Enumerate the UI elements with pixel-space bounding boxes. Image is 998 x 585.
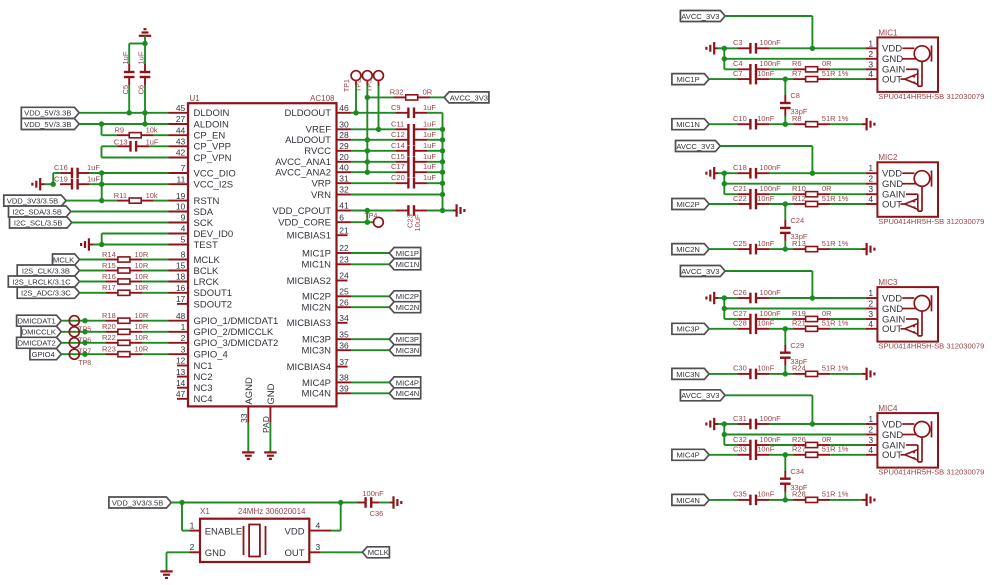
wire VDD_CORE to TP4 [351, 211, 374, 225]
svg-text:1: 1 [190, 520, 195, 530]
svg-text:34: 34 [339, 313, 349, 323]
svg-text:LRCK: LRCK [194, 277, 220, 288]
net flag MIC1N [672, 119, 709, 130]
capacitor C13 1uF [114, 137, 159, 151]
net flag MIC1N [389, 259, 420, 270]
svg-text:SPU0414HR5H-SB 312030079: SPU0414HR5H-SB 312030079 [878, 92, 984, 101]
svg-text:4: 4 [868, 319, 873, 329]
test point TP5 [69, 316, 91, 334]
svg-text:2: 2 [868, 299, 873, 309]
wire R9 to ALDOIN rail [102, 124, 117, 135]
net flag MIC2P [672, 199, 709, 210]
wire C32 to R26 [769, 444, 793, 446]
capacitor C17 1uF [391, 162, 436, 177]
resistor R22 10R [102, 333, 149, 345]
svg-text:R15: R15 [102, 261, 116, 270]
svg-text:OUT: OUT [285, 548, 305, 559]
capacitor C19 1uF [54, 174, 100, 189]
capacitor C5 1uF [121, 51, 135, 94]
svg-text:9: 9 [181, 213, 186, 223]
svg-text:44: 44 [176, 125, 186, 135]
svg-text:MICBIAS2: MICBIAS2 [287, 276, 331, 287]
net flag AVCC_3V3 (MIC1) [680, 11, 725, 22]
wire MIC2N [351, 306, 389, 308]
net flag MIC3P [389, 334, 420, 345]
svg-text:MIC4P: MIC4P [676, 451, 699, 460]
svg-text:10nF: 10nF [757, 69, 775, 78]
svg-text:MIC4P: MIC4P [302, 378, 331, 389]
svg-text:I2S_CLK/3.3B: I2S_CLK/3.3B [22, 266, 70, 275]
svg-text:R12: R12 [792, 194, 806, 203]
svg-text:30: 30 [339, 120, 349, 130]
ground (C23) [453, 204, 464, 216]
svg-text:C21: C21 [733, 184, 747, 193]
wire VCC bus down to VDD_3V3 rail [99, 173, 104, 203]
capacitor C32 100nF [733, 435, 781, 451]
wire GND row (MIC4) [724, 434, 865, 436]
capacitor C36 100nF [358, 489, 384, 518]
wire DMICCLK to R20 [61, 329, 105, 334]
svg-text:1uF: 1uF [423, 162, 436, 171]
wire TP1 to DLDOOUT [353, 86, 358, 116]
svg-text:100nF: 100nF [760, 163, 782, 172]
svg-text:AVCC_3V3: AVCC_3V3 [450, 93, 488, 102]
svg-text:DMICDAT1: DMICDAT1 [17, 317, 55, 326]
svg-text:1: 1 [868, 288, 873, 298]
wire C20 to GND bus [427, 181, 445, 186]
capacitor C31 100nF [733, 414, 781, 430]
net flag VDD_3V3/3.5B (X1) [109, 497, 171, 508]
svg-text:10R: 10R [135, 261, 149, 270]
svg-text:51R 1%: 51R 1% [822, 364, 849, 373]
svg-text:1uF: 1uF [87, 163, 100, 172]
net flag MIC1P [672, 74, 709, 85]
svg-text:36: 36 [339, 340, 349, 350]
svg-text:1uF: 1uF [423, 173, 436, 182]
svg-text:MCLK: MCLK [368, 548, 389, 557]
wire C9 row [351, 112, 395, 114]
svg-text:100nF: 100nF [362, 489, 384, 498]
svg-text:C35: C35 [733, 490, 747, 499]
svg-text:AVCC_ANA2: AVCC_ANA2 [275, 168, 331, 179]
microphone MIC4 SPU0414HR5H-SB [866, 404, 985, 477]
svg-text:C27: C27 [733, 309, 747, 318]
svg-text:3: 3 [868, 435, 873, 445]
wire MIC3N to C30 [709, 373, 737, 375]
ground (C26) [706, 292, 718, 304]
svg-text:VRP: VRP [311, 179, 331, 190]
svg-text:13: 13 [176, 367, 186, 377]
resistor R7 51R 1% [792, 69, 849, 82]
svg-text:43: 43 [176, 137, 186, 147]
svg-text:10k: 10k [146, 191, 158, 200]
capacitor C12 1uF [391, 130, 436, 145]
svg-text:22: 22 [339, 243, 349, 253]
wire TEST node to DEV_ID0 [102, 234, 169, 245]
svg-text:R14: R14 [102, 250, 116, 259]
wire C33 to R27 [769, 452, 793, 457]
wire I2S_LRCLK/3.1C to R16 [80, 281, 106, 283]
svg-text:GND: GND [205, 548, 226, 559]
test point TP1 [344, 71, 361, 92]
svg-text:R6: R6 [792, 59, 802, 68]
wire C8 bottom [783, 116, 788, 127]
wire R17 to IC [142, 292, 168, 294]
wire R8 to ground [830, 123, 862, 125]
svg-text:DMICDAT2: DMICDAT2 [17, 339, 55, 348]
ground (X1) [160, 571, 172, 578]
svg-text:NC4: NC4 [194, 394, 213, 405]
ground (MIC4 return) [862, 494, 874, 506]
capacitor C15 1uF [391, 152, 436, 167]
capacitor C21 100nF [733, 184, 781, 200]
svg-text:MIC1P: MIC1P [302, 248, 331, 259]
capacitor C10 10nF [733, 114, 775, 130]
svg-text:SDOUT1: SDOUT1 [194, 288, 233, 299]
wire C36 to ground [379, 502, 390, 504]
svg-text:GPIO4: GPIO4 [32, 350, 55, 359]
resistor R9 10k [115, 126, 158, 138]
ground (top, above C5/C6) [139, 29, 151, 43]
wire C25 to R13 [769, 248, 793, 250]
wire GND bus vertical [442, 113, 444, 211]
wire R19 to GAIN [830, 318, 866, 320]
svg-text:1uF: 1uF [87, 174, 100, 183]
wire R27 to OUT [830, 454, 866, 456]
svg-text:I2C_SDA/3.5B: I2C_SDA/3.5B [13, 207, 62, 216]
svg-text:VDD_3V3/3.5B: VDD_3V3/3.5B [7, 197, 59, 206]
wire MIC4N to C35 [709, 499, 737, 501]
svg-text:23: 23 [339, 255, 349, 265]
svg-text:10R: 10R [135, 283, 149, 292]
svg-text:GND: GND [882, 54, 903, 65]
wire C3 left [724, 47, 737, 49]
wire C11 to GND bus [427, 127, 445, 132]
svg-text:VDD: VDD [882, 169, 902, 180]
svg-text:R18: R18 [102, 311, 116, 320]
wire C17 row [351, 171, 395, 173]
wire VDD_5V to ALDOIN [79, 121, 168, 126]
svg-text:1uF: 1uF [423, 119, 436, 128]
wire ground to C18 [718, 171, 727, 176]
svg-text:3: 3 [316, 542, 321, 552]
wire C3 to VDD pin [769, 47, 866, 49]
svg-text:10R: 10R [135, 311, 149, 320]
wire VDD_3V3 rail (X1) [171, 500, 343, 505]
svg-text:TP1: TP1 [344, 79, 351, 92]
wire C20 row [351, 182, 395, 184]
svg-text:1: 1 [181, 322, 186, 332]
capacitor C3 100nF [733, 38, 781, 54]
wire OUT to MCLK flag [320, 551, 362, 553]
microphone MIC1 SPU0414HR5H-SB [866, 28, 985, 101]
svg-text:R11: R11 [114, 191, 127, 200]
capacitor C22 10nF [733, 194, 775, 210]
svg-text:0R: 0R [822, 59, 832, 68]
svg-text:39: 39 [339, 384, 349, 394]
wire GPIO4 to R23 [61, 352, 105, 357]
svg-text:GND: GND [266, 383, 277, 404]
svg-text:MIC4P: MIC4P [396, 378, 419, 387]
wire ground to C16/C19 node [45, 173, 56, 187]
svg-text:8: 8 [181, 250, 186, 260]
svg-text:C12: C12 [391, 130, 405, 139]
wire R23 to IC [142, 353, 168, 355]
net flag MCLK (X1 out) [362, 547, 389, 558]
net flag DMICDAT2 [17, 337, 62, 348]
svg-text:MICBIAS4: MICBIAS4 [287, 362, 331, 373]
svg-text:C29: C29 [790, 341, 804, 350]
svg-text:SDOUT2: SDOUT2 [194, 299, 233, 310]
svg-text:10nF: 10nF [757, 445, 775, 454]
svg-text:C4: C4 [733, 59, 743, 68]
svg-text:46: 46 [339, 103, 349, 113]
svg-text:17: 17 [176, 294, 186, 304]
svg-text:U1: U1 [190, 94, 201, 103]
IC U1 AC108 audio codec [169, 94, 352, 433]
svg-text:VCC_I2S: VCC_I2S [194, 180, 234, 191]
wire C7 to R7 [769, 76, 793, 81]
net flag AVCC_3V3 (MIC4) [680, 390, 725, 401]
capacitor C26 100nF [733, 288, 781, 304]
wire SCK [72, 222, 169, 224]
svg-text:10nF: 10nF [757, 319, 775, 328]
svg-text:RSTN: RSTN [194, 196, 220, 207]
svg-text:MIC2N: MIC2N [301, 303, 331, 314]
svg-text:I2C_SCL/3.5B: I2C_SCL/3.5B [14, 218, 63, 227]
svg-text:10nF: 10nF [757, 364, 775, 373]
svg-text:4: 4 [181, 224, 186, 234]
svg-text:C18: C18 [733, 163, 747, 172]
svg-text:C19: C19 [54, 174, 68, 183]
svg-text:10nF: 10nF [757, 239, 775, 248]
svg-text:VDD_5V/3.3B: VDD_5V/3.3B [24, 120, 71, 129]
svg-text:MIC1P: MIC1P [676, 75, 699, 84]
net flag I2S_ADC/3.3C [17, 287, 79, 298]
svg-text:R21: R21 [792, 319, 806, 328]
svg-text:MICBIAS3: MICBIAS3 [287, 318, 331, 329]
capacitor C6 1uF [137, 51, 151, 94]
ground (C18) [706, 167, 718, 179]
resistor R18 10R [102, 311, 149, 323]
svg-text:45: 45 [176, 103, 186, 113]
ground (MIC2 return) [862, 243, 874, 255]
wire R28 to ground [830, 499, 862, 501]
wire GND row (MIC3) [724, 308, 865, 310]
wire MIC3P [351, 338, 389, 340]
svg-text:C28: C28 [733, 319, 747, 328]
wire AGND pin 33 to ground [247, 423, 249, 452]
svg-text:MIC1: MIC1 [878, 28, 898, 37]
svg-text:C32: C32 [733, 435, 747, 444]
wire MIC2P [351, 295, 389, 297]
resistor R28 51R 1% [792, 490, 849, 503]
wire MIC1N to C10 [709, 123, 737, 125]
resistor R13 51R 1% [792, 239, 849, 252]
svg-text:C36: C36 [370, 509, 384, 518]
svg-text:1: 1 [868, 163, 873, 173]
svg-text:100nF: 100nF [760, 435, 782, 444]
capacitor C7 10nF [733, 69, 775, 85]
wire ground to C26 [718, 295, 727, 300]
svg-text:NC2: NC2 [194, 372, 213, 383]
svg-text:1uF: 1uF [423, 130, 436, 139]
wire GND bus corner to C32 [724, 444, 737, 446]
wire R6 to GAIN [830, 68, 866, 70]
svg-text:MCLK: MCLK [53, 255, 74, 264]
wire R14 to IC [142, 259, 168, 261]
wire MIC1N [351, 263, 389, 265]
svg-text:BCLK: BCLK [194, 266, 219, 277]
net flag MIC4P [672, 449, 709, 460]
svg-text:2: 2 [868, 49, 873, 59]
net flag MCLK [53, 254, 80, 265]
wire R12 to OUT [830, 203, 866, 205]
capacitor C27 100nF [733, 309, 781, 325]
svg-text:AC108: AC108 [310, 94, 335, 103]
wire VDD_3V3 to R11 [66, 200, 117, 202]
test point TP7 [69, 338, 91, 356]
svg-text:R17: R17 [102, 283, 116, 292]
resistor R16 10R [102, 272, 149, 284]
wire C29 bottom [783, 366, 788, 377]
svg-text:ALDOIN: ALDOIN [194, 119, 230, 130]
svg-text:VDD: VDD [285, 526, 305, 537]
svg-text:C25: C25 [733, 239, 747, 248]
svg-text:MIC4N: MIC4N [676, 496, 700, 505]
resistor R26 0R [792, 435, 832, 448]
svg-text:AGND: AGND [244, 377, 255, 405]
svg-text:MIC3N: MIC3N [301, 346, 331, 357]
net flag MIC4P [389, 377, 420, 388]
wire C34 bottom [783, 492, 788, 503]
svg-text:CP_VPP: CP_VPP [194, 142, 232, 153]
svg-text:0R: 0R [822, 435, 832, 444]
svg-text:I2S_LRCLK/3.1C: I2S_LRCLK/3.1C [12, 277, 71, 286]
net flag AVCC_3V3 (MIC3) [680, 266, 725, 277]
capacitor C28 10nF [733, 319, 775, 335]
svg-text:10nF: 10nF [757, 194, 775, 203]
resistor R24 51R 1% [792, 364, 849, 377]
wire C27 to R19 [769, 318, 793, 320]
svg-text:10k: 10k [146, 126, 158, 135]
svg-text:MIC3: MIC3 [878, 278, 898, 287]
svg-text:MIC2N: MIC2N [396, 303, 420, 312]
wire R9 to CP_EN [154, 134, 169, 136]
svg-text:1uF: 1uF [423, 103, 436, 112]
wire C16 left [53, 172, 60, 174]
svg-text:47: 47 [176, 389, 186, 399]
microphone MIC3 SPU0414HR5H-SB [866, 278, 985, 351]
svg-text:OUT: OUT [882, 75, 902, 86]
wire MIC4N [351, 392, 389, 394]
svg-text:SCK: SCK [194, 218, 214, 229]
net flag MIC2N [672, 244, 709, 255]
svg-text:1: 1 [868, 38, 873, 48]
svg-text:0R: 0R [822, 184, 832, 193]
svg-text:GPIO_2/DMICCLK: GPIO_2/DMICCLK [194, 327, 274, 338]
wire SDA [71, 211, 169, 213]
wire GND bus (MIC2) [722, 173, 727, 194]
net flag VDD_5V/3.3B (pin 45) [21, 107, 79, 118]
svg-text:MIC4N: MIC4N [301, 389, 331, 400]
svg-text:11: 11 [176, 174, 185, 184]
ground (C31) [706, 418, 718, 430]
svg-text:VDD: VDD [882, 419, 902, 430]
svg-text:20: 20 [339, 152, 349, 162]
microphone MIC2 SPU0414HR5H-SB [866, 153, 985, 226]
svg-text:VRN: VRN [311, 190, 331, 201]
wire MIC1P [351, 252, 389, 254]
wire AVCC_3V3 to VDD (MIC4) [725, 395, 815, 426]
svg-text:2: 2 [868, 174, 873, 184]
wire C11 row [351, 128, 395, 130]
wire I2S_ADC/3.3C to R17 [80, 292, 106, 294]
svg-text:MIC1N: MIC1N [301, 260, 331, 271]
svg-text:10R: 10R [135, 333, 149, 342]
svg-text:24MHz 306020014: 24MHz 306020014 [238, 507, 306, 516]
svg-text:100nF: 100nF [760, 184, 782, 193]
svg-text:3: 3 [181, 344, 186, 354]
svg-text:R10: R10 [792, 184, 806, 193]
wire C31 left [724, 423, 737, 425]
svg-text:C16: C16 [54, 163, 68, 172]
svg-text:10R: 10R [135, 272, 149, 281]
wire C18 left [724, 172, 737, 174]
net flag AVCC_3V3 (R32) [444, 92, 489, 103]
ground (AGND) [242, 452, 254, 459]
wire R11 to RSTN [154, 200, 169, 202]
wire GND pin of X1 to ground [167, 552, 190, 570]
wire R22 to IC [142, 342, 168, 344]
net flag MIC3N [672, 368, 709, 379]
svg-text:1: 1 [868, 414, 873, 424]
wire VDD_3V3 down to ENABLE [182, 503, 189, 531]
wire C13 right to CP_VPP [149, 145, 168, 147]
test point TP2 [355, 71, 372, 92]
wire MIC1P to C7 [709, 78, 737, 80]
wire GND row (MIC2) [724, 183, 865, 185]
wire C10 to R8 [769, 123, 793, 125]
wire VRN to GND bus [351, 192, 445, 197]
wire GND bus (MIC1) [722, 48, 727, 69]
svg-text:51R 1%: 51R 1% [822, 239, 849, 248]
svg-text:AVCC_ANA1: AVCC_ANA1 [275, 157, 331, 168]
svg-text:100nF: 100nF [760, 414, 782, 423]
wire C8 top [784, 79, 786, 95]
svg-text:SPU0414HR5H-SB 312030079: SPU0414HR5H-SB 312030079 [878, 468, 984, 477]
svg-text:0R: 0R [423, 87, 433, 96]
wire C12 row [351, 139, 395, 141]
ground (DEV_ID0/TEST) [81, 238, 93, 250]
wire to C36 [341, 502, 359, 504]
svg-text:C8: C8 [790, 91, 800, 100]
wire VDD pin of X1 up to rail [331, 503, 341, 531]
svg-text:MIC2P: MIC2P [302, 292, 331, 303]
svg-text:3: 3 [868, 184, 873, 194]
test point TP4 [365, 213, 384, 227]
svg-text:26: 26 [339, 297, 349, 307]
resistor R8 51R 1% [792, 114, 849, 127]
wire C6 bottom crossing VDD_5V rails [142, 85, 147, 127]
svg-text:VDD_5V/3.3B: VDD_5V/3.3B [24, 109, 71, 118]
svg-text:VDD: VDD [882, 293, 902, 304]
svg-text:C34: C34 [790, 467, 804, 476]
svg-text:100nF: 100nF [760, 59, 782, 68]
wire DMICDAT2 to R22 [61, 340, 105, 345]
test point TP3 [367, 71, 384, 92]
svg-text:X1: X1 [200, 507, 210, 516]
